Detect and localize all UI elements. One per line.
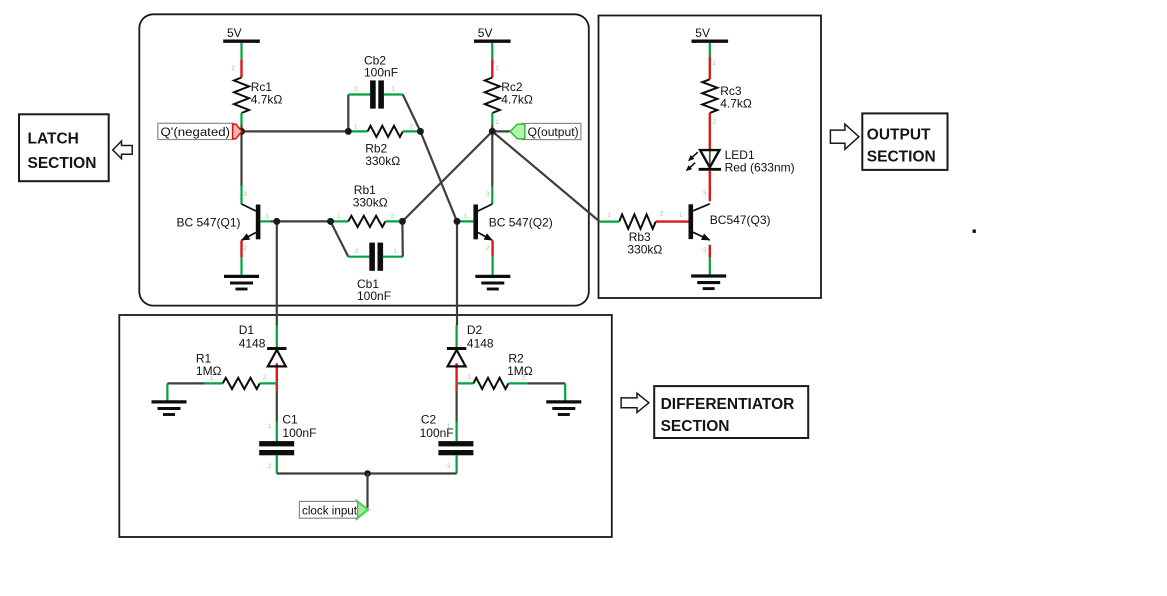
svg-text:330kΩ: 330kΩ (365, 154, 400, 168)
svg-text:BC547(Q3): BC547(Q3) (710, 213, 771, 227)
svg-text:SECTION: SECTION (28, 155, 97, 172)
svg-text:D2: D2 (467, 323, 483, 337)
svg-text:4148: 4148 (239, 336, 266, 350)
svg-text:SECTION: SECTION (661, 418, 730, 435)
svg-text:DIFFERENTIATOR: DIFFERENTIATOR (661, 396, 795, 413)
svg-text:BC 547(Q2): BC 547(Q2) (489, 216, 553, 230)
svg-text:100nF: 100nF (364, 66, 398, 80)
svg-text:Q'(negated): Q'(negated) (161, 125, 231, 139)
svg-text:OUTPUT: OUTPUT (867, 126, 931, 143)
svg-text:4.7kΩ: 4.7kΩ (720, 97, 752, 111)
svg-text:C1: C1 (282, 413, 298, 427)
svg-text:LATCH: LATCH (28, 131, 79, 148)
svg-text:clock input: clock input (302, 503, 358, 517)
svg-text:100nF: 100nF (357, 289, 391, 303)
svg-text:100nF: 100nF (282, 426, 316, 440)
svg-text:4.7kΩ: 4.7kΩ (251, 93, 283, 107)
svg-text:D1: D1 (239, 323, 255, 337)
svg-text:5V: 5V (695, 26, 710, 40)
svg-text:330kΩ: 330kΩ (353, 196, 388, 210)
svg-text:4.7kΩ: 4.7kΩ (501, 93, 533, 107)
svg-text:C2: C2 (421, 413, 437, 427)
svg-text:5V: 5V (478, 26, 493, 40)
svg-text:4148: 4148 (467, 336, 494, 350)
svg-text:SECTION: SECTION (867, 149, 936, 166)
svg-text:1MΩ: 1MΩ (507, 364, 533, 378)
svg-text:Q(output): Q(output) (528, 125, 579, 139)
svg-text:1MΩ: 1MΩ (196, 364, 222, 378)
svg-text:330kΩ: 330kΩ (627, 243, 662, 257)
svg-text:BC 547(Q1): BC 547(Q1) (177, 216, 241, 230)
svg-text:Red (633nm): Red (633nm) (725, 161, 795, 175)
svg-text:5V: 5V (227, 26, 242, 40)
